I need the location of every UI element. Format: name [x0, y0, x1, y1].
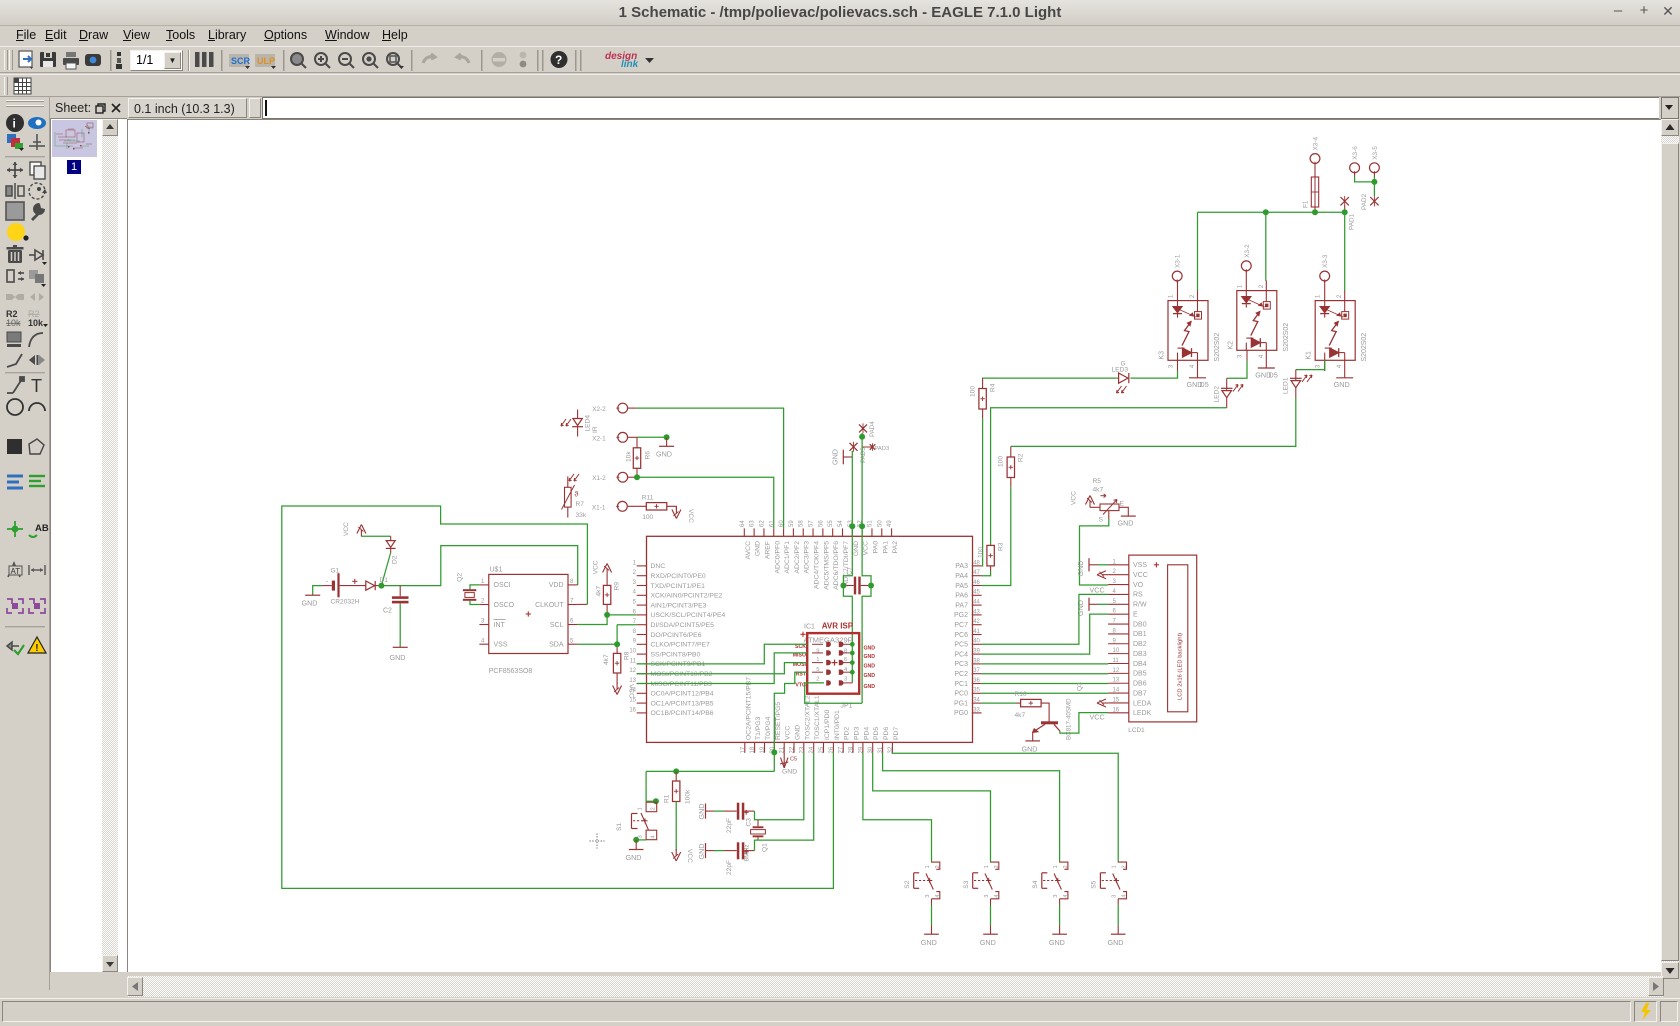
- wire: Q3 collector to LCD LEDK: [1060, 713, 1108, 734]
- wire: R2 to MCU PA5: [1010, 478, 1012, 487]
- overline on RESET/PG5: [774, 717, 776, 740]
- svg-text:7: 7: [570, 599, 574, 605]
- svg-text:LEDK: LEDK: [1133, 710, 1152, 717]
- svg-text:8: 8: [844, 649, 847, 655]
- svg-text:PG0: PG0: [954, 710, 968, 717]
- svg-text:S5: S5: [1091, 880, 1098, 888]
- wire: PD4 to S2: [863, 753, 932, 862]
- svg-text:SCK/PCINT9/PB1: SCK/PCINT9/PB1: [651, 661, 706, 668]
- svg-text:VCC: VCC: [1133, 572, 1148, 579]
- svg-text:4k7: 4k7: [1015, 712, 1026, 719]
- svg-text:PAD4: PAD4: [869, 421, 876, 437]
- svg-text:9: 9: [816, 649, 819, 655]
- ISP pad row SCK: [826, 642, 831, 647]
- svg-text:OC1B/PCINT14/PB6: OC1B/PCINT14/PB6: [651, 710, 714, 717]
- svg-text:100: 100: [969, 386, 976, 397]
- svg-text:LED4: LED4: [585, 415, 592, 432]
- svg-text:ϑ: ϑ: [575, 492, 579, 499]
- title bar: [0, 0, 1680, 26]
- svg-text:TOSC2/XTAL2: TOSC2/XTAL2: [804, 695, 811, 740]
- ground under K2 pin4: [1265, 350, 1267, 368]
- svg-text:2: 2: [633, 570, 637, 576]
- wire C2 to ground: [399, 603, 401, 647]
- svg-text:41: 41: [973, 629, 980, 635]
- wire: PC3 to LCD DB4: [982, 663, 1109, 665]
- svg-text:1: 1: [1053, 865, 1059, 868]
- svg-text:36: 36: [973, 678, 980, 684]
- svg-text:13: 13: [1113, 678, 1120, 684]
- svg-text:GND: GND: [1022, 744, 1038, 753]
- svg-text:T0/PG4: T0/PG4: [765, 716, 772, 740]
- svg-text:62: 62: [759, 520, 765, 527]
- svg-text:DB1: DB1: [1133, 631, 1147, 638]
- bottom horizontal scrollbar: [127, 976, 1664, 997]
- svg-text:MOSI/PCINT10/PB2: MOSI/PCINT10/PB2: [651, 671, 713, 678]
- svg-text:2: 2: [1122, 865, 1128, 868]
- svg-text:30: 30: [868, 746, 874, 753]
- svg-text:OSCI: OSCI: [494, 582, 511, 589]
- svg-text:14: 14: [1113, 688, 1120, 694]
- wire: PD7 to S5: [892, 753, 1118, 862]
- svg-text:K3: K3: [1159, 351, 1166, 360]
- svg-text:VSS: VSS: [1133, 562, 1147, 569]
- junction PAD4/VCC column: [859, 434, 865, 440]
- svg-text:VCC: VCC: [686, 849, 693, 863]
- svg-text:F1: F1: [1303, 200, 1310, 208]
- pushbutton S3: [990, 861, 992, 862]
- ISP pad row MOSI: [826, 660, 831, 665]
- svg-text:GND: GND: [864, 684, 876, 690]
- svg-text:29: 29: [858, 746, 864, 753]
- terminal X1-2: [618, 472, 628, 482]
- supply VCC at R11: [675, 507, 677, 514]
- svg-text:PAD2: PAD2: [1361, 193, 1368, 210]
- svg-text:55: 55: [828, 520, 834, 527]
- svg-text:60: 60: [779, 520, 785, 527]
- svg-text:R10: R10: [1015, 691, 1027, 698]
- wire S1 to ground: [636, 839, 646, 841]
- crystal Q1 (8MHz): [757, 820, 759, 827]
- wire: PG1 to R10: [982, 702, 1016, 704]
- svg-text:U$1: U$1: [490, 566, 503, 573]
- svg-text:GND: GND: [853, 541, 860, 556]
- wire S3 to ground: [990, 905, 992, 926]
- sheets panel: [50, 97, 127, 972]
- svg-text:11: 11: [1113, 658, 1120, 664]
- svg-text:XCK/AIN0/PCINT2/PE2: XCK/AIN0/PCINT2/PE2: [651, 593, 723, 600]
- svg-text:VCC: VCC: [343, 522, 350, 536]
- junction C7 right: [868, 583, 874, 589]
- capacitor C7: [843, 585, 853, 587]
- svg-text:40: 40: [973, 639, 980, 645]
- svg-text:DB0: DB0: [1133, 621, 1147, 628]
- svg-text:X3-6: X3-6: [1352, 146, 1359, 160]
- svg-text:C7: C7: [847, 567, 854, 575]
- svg-text:SCL: SCL: [550, 622, 564, 629]
- pad PAD3 (arrow): [862, 446, 872, 448]
- svg-text:PD4: PD4: [863, 727, 870, 740]
- svg-text:4: 4: [633, 590, 637, 596]
- svg-text:LEDA: LEDA: [1133, 700, 1152, 707]
- svg-text:3: 3: [481, 619, 485, 625]
- ISP pad row MISO: [826, 650, 831, 655]
- svg-text:RXD/PCINT0/PE0: RXD/PCINT0/PE0: [651, 573, 706, 580]
- svg-text:R6: R6: [644, 451, 651, 460]
- svg-text:4k7: 4k7: [1093, 487, 1104, 494]
- svg-text:DB5: DB5: [1133, 671, 1147, 678]
- svg-text:GND: GND: [864, 673, 876, 679]
- svg-text:GND: GND: [1049, 938, 1065, 947]
- svg-text:GND: GND: [921, 938, 937, 947]
- wire X3-4 to F1: [1314, 163, 1316, 177]
- svg-text:PC6: PC6: [954, 632, 968, 639]
- ground symbol at supply column: [842, 450, 844, 465]
- svg-text:26: 26: [829, 746, 835, 753]
- wire battery minus to ground: [313, 586, 322, 596]
- resistor R2 (100): [1007, 457, 1014, 478]
- svg-text:R/W: R/W: [1133, 602, 1147, 609]
- svg-text:8: 8: [570, 579, 574, 585]
- svg-text:DB4: DB4: [1133, 661, 1147, 668]
- svg-text:17: 17: [740, 746, 746, 753]
- wire: X1-2 to MCU ADC0: [628, 476, 637, 478]
- svg-text:PD2: PD2: [844, 727, 851, 740]
- svg-text:24: 24: [809, 746, 815, 753]
- svg-text:PD5: PD5: [873, 727, 880, 740]
- svg-text:ADC0/PF0: ADC0/PF0: [774, 541, 781, 574]
- svg-text:ADC7/TDI/PF7: ADC7/TDI/PF7: [843, 541, 850, 587]
- svg-text:Q1: Q1: [762, 843, 769, 852]
- svg-text:X1-2: X1-2: [592, 475, 606, 482]
- svg-text:E: E: [1120, 501, 1125, 508]
- svg-text:GND: GND: [864, 654, 876, 660]
- wire: K1 pin3 to LED1 anode: [1324, 360, 1326, 371]
- svg-text:PC5: PC5: [954, 642, 968, 649]
- svg-text:DO/PCINT6/PE6: DO/PCINT6/PE6: [651, 632, 702, 639]
- svg-text:ADC4/TCK/PF4: ADC4/TCK/PF4: [814, 541, 821, 589]
- LED LED2: [1221, 387, 1233, 389]
- svg-text:D5: D5: [1200, 380, 1209, 389]
- menu bar: [0, 26, 1680, 46]
- svg-text:33: 33: [973, 707, 980, 713]
- svg-text:57: 57: [809, 520, 815, 527]
- svg-text:R3: R3: [998, 542, 1005, 551]
- svg-text:PA4: PA4: [955, 573, 968, 580]
- svg-text:S: S: [1099, 517, 1104, 524]
- svg-text:2: 2: [935, 865, 941, 868]
- wire: VTG net: [805, 683, 862, 703]
- svg-text:X3-5: X3-5: [1372, 146, 1379, 160]
- svg-text:X2-2: X2-2: [592, 406, 606, 413]
- pushbutton S4: [1059, 861, 1061, 862]
- svg-text:ADC5/TMS/PF5: ADC5/TMS/PF5: [823, 541, 830, 590]
- status bar: [0, 998, 1680, 1025]
- ground at LCD R/W: [1088, 598, 1090, 611]
- svg-text:100k: 100k: [685, 789, 692, 804]
- resistor R3 (100): [987, 545, 994, 566]
- resistor R11 (100): [628, 505, 647, 507]
- svg-text:R7: R7: [576, 501, 585, 508]
- pad PAD2: [1370, 197, 1378, 205]
- svg-text:22pF: 22pF: [726, 818, 733, 833]
- svg-text:AREF: AREF: [764, 541, 771, 559]
- svg-text:IC1: IC1: [804, 624, 815, 631]
- svg-text:IR: IR: [592, 426, 599, 433]
- svg-text:3: 3: [844, 677, 847, 683]
- wire: SDA net: [578, 643, 617, 645]
- svg-text:4: 4: [650, 835, 656, 839]
- svg-text:56: 56: [818, 520, 824, 527]
- svg-text:PC3: PC3: [954, 661, 968, 668]
- svg-text:16: 16: [1113, 707, 1120, 713]
- ground at C4: [705, 843, 707, 858]
- fuse F1: [1311, 177, 1318, 207]
- MCU IC1 (ATMEGA329P) box: [647, 536, 973, 742]
- wire: K2 pin3 to LED2 anode: [1246, 350, 1248, 361]
- svg-text:LED3: LED3: [1112, 366, 1129, 373]
- svg-text:63: 63: [750, 520, 756, 527]
- svg-text:GND: GND: [697, 844, 706, 860]
- svg-text:34: 34: [973, 698, 980, 704]
- svg-text:GND: GND: [626, 853, 642, 862]
- svg-text:VCC: VCC: [863, 541, 870, 555]
- svg-text:43: 43: [973, 609, 980, 615]
- junction X2-1/GND: [664, 434, 670, 440]
- ground at X2-1: [659, 445, 674, 447]
- svg-text:15: 15: [1113, 697, 1120, 703]
- svg-text:PA0: PA0: [872, 541, 879, 554]
- svg-text:31: 31: [878, 746, 884, 753]
- svg-text:PAD3: PAD3: [875, 446, 890, 452]
- svg-text:GND: GND: [302, 598, 318, 607]
- svg-text:2: 2: [1190, 294, 1196, 298]
- wire: R4 to MCU PA3: [982, 409, 984, 418]
- svg-text:10: 10: [1113, 648, 1120, 654]
- svg-text:4: 4: [1259, 354, 1265, 358]
- svg-text:LED1: LED1: [1282, 377, 1289, 394]
- svg-text:D2: D2: [392, 555, 399, 564]
- svg-text:PA7: PA7: [955, 602, 968, 609]
- svg-text:R2: R2: [1018, 453, 1025, 462]
- svg-text:1: 1: [1112, 865, 1118, 868]
- coordinate display and command line: [127, 97, 1680, 119]
- svg-text:X3-4: X3-4: [1313, 137, 1320, 151]
- LED LED4 (IR): [577, 410, 579, 419]
- svg-text:44: 44: [973, 600, 980, 606]
- svg-text:2: 2: [1063, 865, 1069, 868]
- wire bus to K2 pin2: [1265, 212, 1267, 281]
- wire: SCK net: [637, 644, 808, 664]
- junction K2 branch: [1263, 209, 1269, 215]
- svg-text:3: 3: [633, 580, 637, 586]
- svg-text:4: 4: [1190, 364, 1196, 368]
- svg-text:VCC: VCC: [785, 726, 792, 740]
- svg-text:58: 58: [799, 520, 805, 527]
- photoresistor R7 (33k): [567, 476, 569, 487]
- svg-text:22: 22: [790, 746, 796, 753]
- svg-text:42: 42: [973, 619, 980, 625]
- svg-text:48: 48: [973, 560, 980, 566]
- terminal X1-1: [618, 501, 628, 511]
- svg-text:100: 100: [998, 456, 1005, 467]
- resistor R6 (10k): [636, 437, 638, 448]
- svg-text:VCC: VCC: [592, 560, 599, 574]
- junction S1 contact2: [653, 798, 659, 804]
- terminal X3-3: [1320, 271, 1330, 281]
- wire X3-6/X3-5 to PAD2: [1354, 173, 1356, 177]
- svg-text:5: 5: [633, 600, 637, 606]
- svg-text:SS/PCINT8/PB0: SS/PCINT8/PB0: [651, 651, 701, 658]
- overline on INT: [494, 619, 506, 621]
- svg-text:AVCC: AVCC: [745, 541, 752, 559]
- svg-text:R1: R1: [664, 794, 671, 803]
- svg-text:4: 4: [481, 638, 485, 644]
- svg-text:PA6: PA6: [955, 593, 968, 600]
- svg-text:100: 100: [977, 547, 984, 558]
- svg-text:S3: S3: [963, 880, 970, 888]
- ground at C3: [705, 804, 707, 819]
- resistor R8 (4k7 SDA pullup): [616, 644, 618, 653]
- wire S4 to ground: [1059, 905, 1061, 926]
- supply VCC at R1: [675, 849, 677, 856]
- svg-text:4k7: 4k7: [603, 654, 610, 665]
- svg-text:D5: D5: [1269, 370, 1278, 379]
- ground at LCD VSS: [1088, 558, 1090, 571]
- terminal X3-1: [1172, 271, 1182, 281]
- supply VCC at R8: [616, 683, 618, 690]
- svg-text:LCD 2x16 (LED backlight): LCD 2x16 (LED backlight): [1178, 633, 1184, 700]
- svg-text:3: 3: [1316, 364, 1322, 368]
- supply VCC at LCD LEDA: [1102, 702, 1108, 704]
- svg-text:2: 2: [481, 599, 485, 605]
- svg-text:PG1: PG1: [954, 700, 968, 707]
- resistor R9 (4k7 SCL pullup): [606, 569, 608, 576]
- svg-text:GND: GND: [795, 725, 802, 740]
- svg-text:R9: R9: [613, 582, 620, 591]
- svg-text:INT0/PD1: INT0/PD1: [834, 710, 841, 740]
- svg-text:C5: C5: [790, 757, 797, 763]
- svg-text:PD6: PD6: [883, 727, 890, 740]
- resistor R4 (100): [982, 378, 984, 388]
- svg-text:X2-1: X2-1: [592, 435, 606, 442]
- svg-text:3: 3: [1169, 364, 1175, 368]
- svg-text:12: 12: [1113, 668, 1120, 674]
- svg-text:1: 1: [984, 865, 990, 868]
- wire R1 to VCC: [675, 802, 677, 851]
- svg-text:3: 3: [984, 895, 990, 898]
- ground under K1 pin4: [1344, 360, 1346, 378]
- svg-text:R11: R11: [642, 494, 654, 501]
- svg-text:S202S02: S202S02: [1361, 333, 1368, 362]
- svg-text:K2: K2: [1227, 341, 1234, 350]
- svg-text:MISO/PCINT11/PB3: MISO/PCINT11/PB3: [651, 681, 713, 688]
- relay K2 (S202S02): [1237, 291, 1277, 351]
- ISP pad row RST: [826, 670, 831, 675]
- svg-text:1: 1: [1237, 284, 1243, 288]
- svg-text:-: -: [326, 577, 329, 586]
- svg-text:ADC2/PF2: ADC2/PF2: [794, 541, 801, 574]
- svg-text:GND: GND: [656, 450, 672, 459]
- resistor R10 (4k7): [1021, 699, 1042, 706]
- resistor R1 (100k): [675, 771, 677, 781]
- capacitor C3 (22pF): [737, 803, 740, 820]
- svg-text:DB3: DB3: [1133, 651, 1147, 658]
- svg-text:PA5: PA5: [955, 583, 968, 590]
- svg-text:47: 47: [973, 570, 980, 576]
- svg-text:3: 3: [1112, 895, 1118, 898]
- svg-text:GND: GND: [390, 653, 406, 662]
- cursor crosshair mark: [590, 834, 605, 849]
- svg-text:GND: GND: [1118, 518, 1134, 527]
- svg-text:R4: R4: [990, 383, 997, 392]
- svg-text:46: 46: [973, 580, 980, 586]
- svg-text:12: 12: [629, 668, 636, 674]
- junction X3-5 node: [1371, 179, 1377, 185]
- ground at S1: [629, 849, 644, 851]
- LED LED3: [1128, 373, 1130, 383]
- svg-text:23: 23: [799, 746, 805, 753]
- svg-text:C3: C3: [745, 818, 752, 827]
- svg-text:ADC3/PF3: ADC3/PF3: [804, 541, 811, 574]
- svg-text:51: 51: [867, 520, 873, 527]
- svg-text:G: G: [1121, 360, 1126, 367]
- svg-text:VO: VO: [1133, 582, 1144, 589]
- svg-text:PA1: PA1: [882, 541, 889, 554]
- ISP pad row VTG: [826, 680, 831, 685]
- connector LCD1 (LCD 2x16): [1129, 555, 1197, 722]
- svg-text:4: 4: [1337, 364, 1343, 368]
- svg-text:RS: RS: [1133, 592, 1143, 599]
- svg-text:10: 10: [629, 649, 636, 655]
- terminal X3-6: [1350, 163, 1360, 173]
- svg-text:39: 39: [973, 649, 980, 655]
- left command toolbar: [0, 97, 50, 990]
- svg-text:X3-2: X3-2: [1244, 244, 1251, 258]
- svg-text:OC0A/PCINT12/PB4: OC0A/PCINT12/PB4: [651, 691, 714, 698]
- trimmer R5 (4k7): [1100, 504, 1119, 511]
- svg-text:ADC1/PF1: ADC1/PF1: [784, 541, 791, 574]
- svg-text:X1-1: X1-1: [592, 504, 606, 511]
- junction SDA/R8: [614, 641, 620, 647]
- wire bus to K3 pin2: [1197, 212, 1199, 291]
- ground at C2: [393, 646, 408, 648]
- diode D1: [366, 581, 375, 590]
- svg-text:14: 14: [629, 688, 636, 694]
- ground under K3 pin4: [1197, 360, 1199, 378]
- svg-text:11: 11: [630, 658, 637, 664]
- wire: RESET net (ISP RST to pin20 and R1, staircase): [774, 672, 807, 771]
- MCU top pins 64-49: [743, 528, 745, 536]
- svg-text:45: 45: [973, 590, 980, 596]
- svg-text:1: 1: [481, 579, 485, 585]
- svg-text:21: 21: [780, 746, 786, 753]
- junction RESET/pin20: [771, 749, 777, 755]
- svg-text:DB6: DB6: [1133, 681, 1147, 688]
- svg-text:VCC: VCC: [1071, 491, 1078, 505]
- wire: K3 pin3 to LED3 cathode: [1177, 360, 1179, 371]
- svg-text:25: 25: [819, 746, 825, 753]
- svg-text:GND: GND: [1334, 380, 1350, 389]
- wire: X2-2 to MCU ADC1: [628, 407, 637, 409]
- svg-text:22pF: 22pF: [726, 860, 733, 875]
- svg-text:VCC: VCC: [687, 509, 694, 523]
- svg-text:GND: GND: [755, 541, 762, 556]
- svg-text:AIN1/PCINT3/PE3: AIN1/PCINT3/PE3: [651, 602, 707, 609]
- terminal X3-5: [1370, 163, 1380, 173]
- svg-text:LCD1: LCD1: [1128, 727, 1145, 734]
- svg-text:OC2A/PCINT15/PB7: OC2A/PCINT15/PB7: [745, 677, 752, 740]
- svg-text:1: 1: [1316, 294, 1322, 298]
